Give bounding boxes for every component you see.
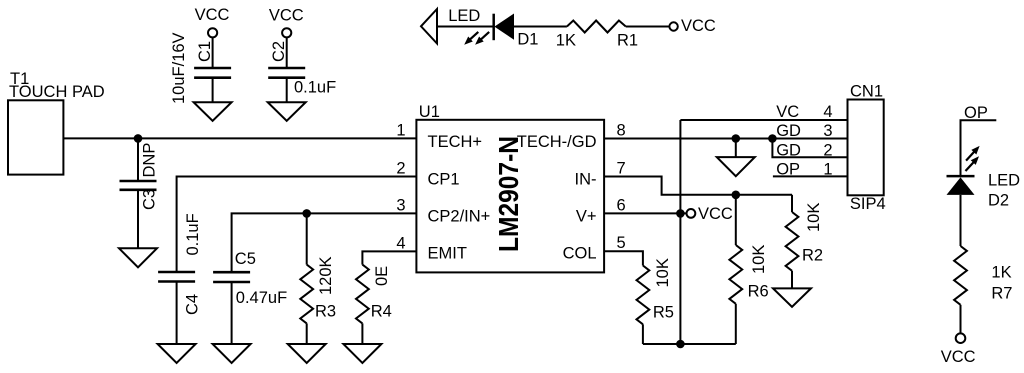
wire R2 top — [791, 195, 793, 212]
wire GND branch — [735, 139, 737, 158]
svg-text:R3: R3 — [315, 303, 336, 321]
LED D1 arrows — [462, 29, 481, 47]
wire touchpad to U1 pin 1 — [63, 137, 416, 139]
svg-text:2: 2 — [823, 141, 832, 159]
ground C4 — [158, 344, 196, 363]
node junction GND branch — [732, 134, 741, 143]
wire U1 pin 8 to CN1 pin 3 (GD) — [604, 138, 847, 140]
VCC terminal circle R1 — [669, 22, 677, 30]
wire D2 to R7 — [960, 195, 962, 246]
node junction GD2 branch — [768, 134, 777, 143]
svg-text:D1: D1 — [517, 31, 538, 49]
svg-text:R2: R2 — [802, 247, 823, 265]
wire R6 bottom — [735, 304, 737, 344]
VCC terminal circle C1 — [208, 28, 217, 37]
svg-text:VCC: VCC — [698, 205, 733, 223]
wire C2 top — [286, 37, 288, 68]
node junction touchpad/C3 — [134, 134, 143, 143]
svg-text:C5: C5 — [235, 250, 256, 268]
LED D2 — [947, 175, 975, 178]
svg-text:C4: C4 — [184, 294, 202, 315]
svg-text:OP: OP — [776, 161, 800, 179]
LED D2 arrows — [964, 144, 983, 163]
touch pad T1 — [8, 100, 63, 174]
svg-text:VCC: VCC — [195, 6, 230, 24]
VCC terminal circle R7 — [956, 333, 966, 343]
wire R3 top — [306, 213, 308, 264]
wire U1 pin 7 (IN-) jog — [604, 177, 792, 195]
ground C3 — [119, 248, 157, 267]
ground R3 — [288, 344, 326, 363]
svg-text:6: 6 — [617, 196, 626, 214]
wire R3 bottom — [306, 323, 308, 344]
svg-text:0.1uF: 0.1uF — [294, 79, 336, 97]
svg-text:GD: GD — [776, 141, 801, 159]
svg-text:10K: 10K — [654, 258, 672, 287]
wire C5 bottom — [231, 282, 233, 344]
ground R2 — [773, 288, 811, 306]
capacitor C3 — [120, 180, 157, 183]
LED D1 — [492, 14, 495, 41]
resistor R2 — [786, 212, 799, 271]
svg-text:0E: 0E — [373, 266, 391, 286]
resistor R5 — [637, 266, 650, 325]
VCC terminal circle pin6 — [687, 209, 696, 218]
svg-text:0.47uF: 0.47uF — [236, 289, 287, 307]
svg-text:5: 5 — [617, 234, 626, 252]
svg-text:C2: C2 — [270, 41, 288, 62]
wire R4 bottom — [361, 323, 363, 344]
wire C3 top — [137, 138, 139, 181]
resistor R6 — [729, 245, 742, 304]
wire D1 to R1 — [513, 26, 567, 28]
svg-text:OP: OP — [964, 104, 988, 122]
wire GD2 link — [772, 139, 847, 158]
ground C2 — [268, 102, 306, 121]
svg-text:COL: COL — [563, 245, 597, 263]
svg-text:1K: 1K — [556, 32, 576, 50]
svg-text:LED: LED — [988, 172, 1020, 190]
connector CN1 body — [848, 100, 884, 196]
svg-text:LM2907-N: LM2907-N — [493, 136, 524, 252]
svg-text:4: 4 — [823, 103, 832, 121]
ground R4 — [343, 344, 381, 363]
resistor R7 — [954, 246, 967, 305]
svg-text:7: 7 — [617, 160, 626, 178]
svg-text:C3: C3 — [141, 189, 159, 210]
ground D1 (left-pointing) — [421, 9, 437, 44]
svg-text:TECH-/GD: TECH-/GD — [517, 133, 597, 151]
svg-text:U1: U1 — [419, 103, 440, 121]
svg-text:DNP: DNP — [141, 143, 159, 178]
wire C4 bottom — [176, 282, 178, 345]
svg-text:R7: R7 — [991, 285, 1012, 303]
wire C2 bottom — [286, 78, 288, 103]
svg-text:1: 1 — [396, 121, 405, 139]
capacitor C5 — [213, 271, 250, 274]
wire U1 pin 3 — [232, 213, 417, 272]
wire VC row to CN1 pin 4 — [680, 119, 847, 121]
wire ground to D1 — [437, 26, 494, 28]
VCC terminal circle C2 — [282, 28, 291, 37]
wire bottom VCC rail — [643, 343, 736, 345]
svg-text:10uF/16V: 10uF/16V — [170, 32, 188, 104]
wire C1 top — [212, 37, 214, 68]
wire C1 bottom — [212, 78, 214, 103]
op-amp U1 body — [416, 120, 604, 273]
svg-text:R6: R6 — [748, 283, 769, 301]
svg-text:EMIT: EMIT — [428, 245, 467, 263]
ground GD — [717, 157, 755, 176]
svg-text:VC: VC — [776, 103, 799, 121]
wire R5 bottom — [642, 324, 644, 344]
capacitor C1 — [194, 67, 231, 70]
svg-text:LED: LED — [448, 7, 480, 25]
wire R6 top — [735, 195, 737, 245]
svg-text:R5: R5 — [653, 304, 674, 322]
wire R2 bottom — [791, 271, 793, 289]
svg-text:3: 3 — [396, 196, 405, 214]
wire R7 bottom — [960, 305, 962, 334]
wire VCC trunk vertical — [679, 120, 681, 344]
svg-text:IN-: IN- — [575, 170, 597, 188]
svg-text:VCC: VCC — [941, 348, 976, 366]
svg-text:V+: V+ — [576, 207, 597, 225]
svg-text:D2: D2 — [988, 192, 1009, 210]
wire OP stub to CN1 pin 1 — [773, 175, 848, 177]
resistor R4 — [356, 265, 369, 324]
svg-text:CP1: CP1 — [428, 170, 460, 188]
svg-text:C1: C1 — [196, 41, 214, 62]
svg-text:CN1: CN1 — [850, 83, 883, 101]
wire U1 pin 5 (COL) to R5 — [604, 251, 643, 265]
ground C1 — [194, 102, 232, 121]
svg-text:1: 1 — [823, 161, 832, 179]
svg-text:0.1uF: 0.1uF — [184, 213, 202, 255]
svg-text:VCC: VCC — [269, 6, 304, 24]
svg-text:R1: R1 — [617, 32, 638, 50]
resistor R1 — [567, 21, 626, 33]
wire OP terminal (far right) — [961, 120, 997, 176]
wire U1 pin 4 — [362, 251, 416, 264]
node junction IN-/R6 — [732, 191, 741, 200]
svg-text:10K: 10K — [805, 203, 823, 232]
resistor R3 — [300, 265, 313, 324]
svg-text:3: 3 — [823, 122, 832, 140]
svg-text:1K: 1K — [991, 264, 1011, 282]
svg-text:4: 4 — [396, 234, 405, 252]
node junction trunk/rail — [676, 340, 685, 349]
svg-text:120K: 120K — [317, 256, 335, 295]
svg-text:TOUCH PAD: TOUCH PAD — [9, 83, 105, 101]
svg-text:CP2/IN+: CP2/IN+ — [428, 207, 491, 225]
svg-text:2: 2 — [396, 160, 405, 178]
svg-text:10K: 10K — [750, 245, 768, 274]
wire U1 pin 2 — [177, 177, 417, 273]
wire R1 to VCC — [626, 26, 670, 28]
svg-text:VCC: VCC — [681, 17, 716, 35]
capacitor C2 — [268, 67, 305, 70]
svg-text:8: 8 — [617, 122, 626, 140]
node junction pin3/R3 — [302, 209, 311, 218]
svg-text:TECH+: TECH+ — [428, 133, 483, 151]
node junction V+/trunk — [676, 209, 685, 218]
svg-text:GD: GD — [776, 122, 801, 140]
wire C3 bottom — [137, 190, 139, 249]
ground C5 — [213, 344, 251, 363]
svg-text:SIP4: SIP4 — [850, 195, 886, 213]
svg-text:R4: R4 — [371, 303, 392, 321]
wire U1 pin 6 (V+) — [604, 212, 686, 214]
capacitor C4 — [158, 271, 195, 274]
